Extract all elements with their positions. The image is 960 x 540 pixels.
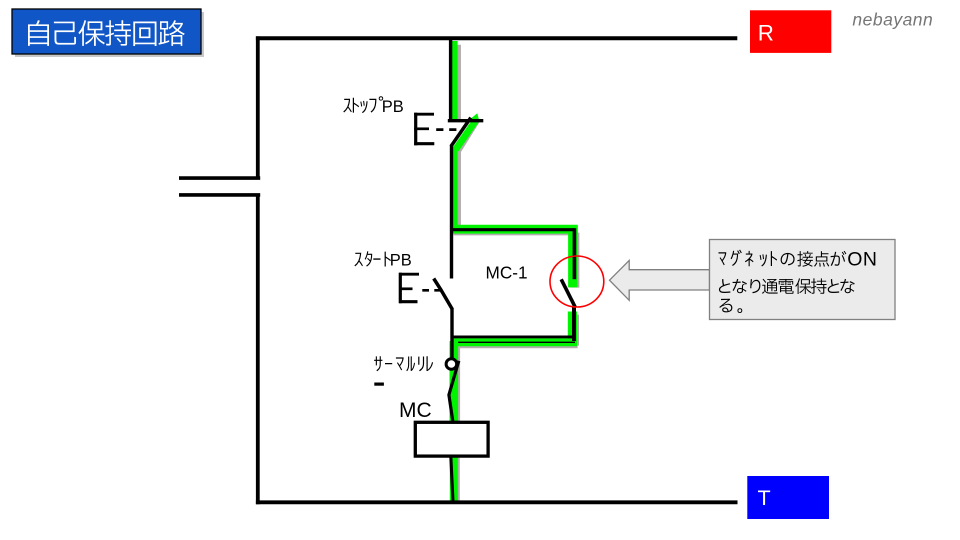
svg-text:MC: MC	[399, 399, 432, 422]
shadow of energized highlight (gray offsets)	[453, 45, 578, 502]
highlight: green holding branch top	[451, 225, 578, 234]
terminal T	[747, 476, 829, 519]
callout arrow	[610, 260, 710, 300]
svg-text:T: T	[758, 486, 771, 510]
stop PB blade	[451, 118, 471, 147]
wire holding branch right upper	[573, 228, 577, 279]
label サーマルリレー line1	[374, 356, 433, 371]
label ストップPB	[343, 96, 383, 113]
wire holding branch top	[450, 228, 575, 231]
wire main branch middle (stop PB to start PB)	[450, 145, 453, 279]
wire holding branch bottom	[452, 335, 575, 338]
wire top bus	[256, 36, 737, 40]
highlight: green holding branch bottom	[451, 338, 577, 346]
label スタートPB	[354, 251, 391, 266]
highlight: green through thermal relay to coil	[449, 341, 458, 422]
wire left bus lower	[256, 195, 260, 504]
highlight: green over stop PB blade	[453, 113, 479, 151]
svg-text:ON: ON	[847, 249, 877, 271]
wire main branch upper (top bus to stop PB)	[449, 38, 452, 120]
highlight: green below coil to bottom bus	[450, 456, 458, 502]
stop PB fixed contact bar	[448, 119, 484, 122]
highlight ellipse (red) around MC-1 contact	[550, 256, 604, 307]
wire bottom bus	[256, 500, 738, 504]
svg-text:nebayann: nebayann	[852, 10, 933, 30]
wire coil to bottom bus	[451, 456, 453, 502]
title box 自己保持回路	[12, 9, 204, 57]
pushbutton スタートPB (NO) actuator E symbol	[399, 273, 441, 304]
supply plate lower	[179, 193, 260, 197]
wire holding branch bottom thin line	[457, 341, 576, 343]
svg-text:R: R	[758, 20, 774, 45]
callout box	[710, 240, 896, 320]
label サーマルリレー line2	[374, 383, 384, 386]
highlight: green main branch to junction	[451, 148, 458, 234]
callout text line3 る。	[719, 299, 742, 313]
wire left bus upper	[256, 36, 260, 178]
wire holding branch right lower	[572, 308, 576, 342]
contact MC-1 blade (shown closing)	[561, 279, 575, 307]
callout text line1 マグネットの接点がON	[719, 250, 847, 267]
svg-text:PB: PB	[390, 252, 412, 270]
callout text line2 となり通電保持とな	[719, 278, 855, 294]
wire main branch below start PB	[450, 308, 453, 360]
thermal relay サーマルリレー element circle	[446, 359, 457, 370]
supply plate upper	[179, 176, 260, 180]
svg-text:MC-1: MC-1	[486, 262, 528, 282]
coil MC	[415, 422, 488, 456]
start PB blade (open)	[434, 279, 453, 310]
pushbutton ストップPB (NC) actuator E symbol	[414, 113, 456, 146]
thermal relay blade	[449, 361, 459, 423]
svg-text:PB: PB	[382, 98, 404, 116]
highlight: green holding branch right upper	[568, 229, 577, 287]
highlight: energized green path vertical through stop PB	[451, 41, 458, 120]
terminal R	[750, 10, 831, 53]
highlight: green holding branch right lower	[568, 312, 577, 346]
